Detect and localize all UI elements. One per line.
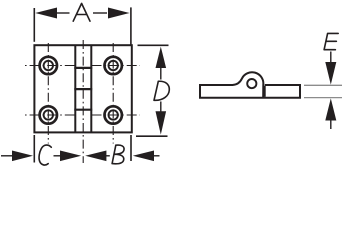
dimension D arrow down [156,111,167,134]
dimension D extension line bottom [136,135,168,137]
knuckle joint line 3 [74,109,92,111]
hinge pin circle [247,79,256,88]
centerline horizontal bottom hole row left [25,114,75,116]
dimension C arrow outside-left [12,151,33,162]
centerline horizontal top hole row right [92,65,141,67]
dimension B arrow inner-left [85,151,106,162]
dimension A arrow right [108,8,130,19]
screw hole bottom-right inner [109,110,118,119]
dimension E arrow down [325,62,336,85]
dimension D extension line top [138,44,169,46]
centerline vertical hinge pin axis [82,40,84,163]
screw hole top-right outer [105,57,122,74]
dimension D arrow up [156,47,167,68]
label A [73,3,90,21]
label E [324,33,338,49]
hinge barrel right edge [90,45,92,132]
centerline horizontal top hole row left [25,65,75,67]
label B [112,145,124,164]
dimension C inner line [54,155,61,157]
centerline vertical left holes [47,43,49,144]
hinge barrel left edge [74,45,76,132]
side view barrel hump [233,72,264,97]
dimension B extension line right [130,135,132,161]
dimension B inner line [106,155,110,157]
knuckle joint line 2 [74,88,92,90]
screw hole top-left outer [40,57,57,74]
dimension E extension line upper (gray) [304,84,342,86]
knuckle joint line 1 [74,67,92,69]
dimension E line lower segment [330,121,332,130]
hinge plate outline front view [34,45,131,132]
label D [154,81,169,100]
centerline horizontal bottom hole row right [92,114,141,116]
dimension A extension line left [33,8,35,42]
dimension B tail line right [153,155,160,157]
side view right leaf end line [264,86,266,97]
screw hole bottom-right outer [105,106,122,123]
dimension D line upper segment [160,67,162,80]
side view leaf bar outline [200,85,300,98]
screw hole top-right inner [109,61,118,70]
dimension A arrow left [35,8,57,19]
screw hole bottom-left outer [40,106,57,123]
dimension A line right segment [93,12,107,14]
dimension D line lower segment [160,102,162,112]
screw hole top-left inner [44,61,53,70]
screw hole bottom-left inner [44,110,53,119]
dimension A extension line right [130,7,132,44]
dimension C tail line left [1,155,13,157]
dimension C arrow inner-right [60,151,81,162]
label C [39,145,51,165]
centerline vertical right holes [112,43,114,144]
dimension E arrow up [325,98,336,120]
dimension E extension line lower (gray) [304,97,342,99]
dimension E line upper segment [330,52,332,63]
dimension B arrow outside-right [133,151,154,162]
dimension A line left segment [56,12,70,14]
dimension C extension line left [33,135,35,163]
